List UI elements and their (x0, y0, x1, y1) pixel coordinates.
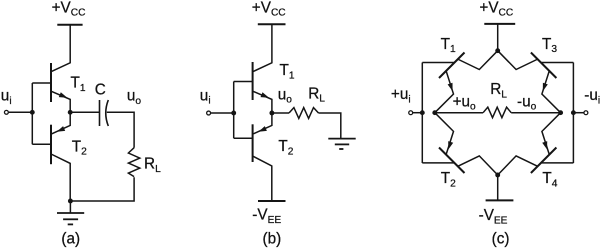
wire input (b) (211, 112, 234, 114)
transistor T2 (a) base bar (50, 125, 52, 165)
svg-text:RL: RL (144, 156, 161, 175)
svg-text:T1: T1 (280, 62, 295, 81)
terminal -u_i (c) (584, 111, 588, 115)
transistor T1 (b) base bar (252, 62, 254, 100)
svg-text:uo: uo (278, 86, 293, 105)
transistor T1 (b) emitter with arrow (253, 91, 272, 113)
wire emitter junction to RL (b) (272, 112, 289, 114)
terminal u_i (b) (207, 111, 211, 115)
transistor T2 (b) base bar (252, 124, 254, 162)
node input left (c) (420, 110, 425, 115)
svg-text:uo: uo (127, 88, 142, 107)
wire RL to ground rail (a) (70, 177, 134, 201)
node input junction (b) (231, 111, 236, 116)
svg-text:+uo: +uo (453, 93, 476, 112)
node ground junction (a) (68, 199, 73, 204)
transistor T2 (a) base lead (32, 143, 51, 145)
svg-text:-VEE: -VEE (252, 207, 281, 226)
svg-text:+VCC: +VCC (252, 0, 286, 19)
+Vcc supply rail (b) (258, 23, 286, 25)
wire right input rail (c) (572, 63, 574, 164)
resistor RL (a) (128, 148, 139, 177)
wire RL to ground (b) (319, 113, 341, 139)
transistor T1 (c) collector (458, 51, 498, 70)
+Vcc supply rail (a) (57, 24, 82, 26)
transistor T3 (c) base bar (531, 53, 557, 79)
svg-text:-uo: -uo (517, 93, 537, 112)
capacitor C (a) (99, 100, 101, 126)
node input junction (a) (30, 110, 35, 115)
wire emitter junction to capacitor (a) (70, 111, 99, 113)
wire input left (c) (413, 112, 423, 114)
terminal u_i (a) (4, 110, 8, 114)
-Vee supply rail (b) (258, 200, 286, 202)
wire input (a) (9, 111, 33, 113)
transistor T2 (c) base lead (422, 162, 454, 164)
transistor T2 (a) collector (51, 154, 70, 201)
transistor T2 (a) emitter with arrow (52, 112, 70, 134)
svg-text:T1: T1 (441, 36, 456, 55)
svg-text:+ui: +ui (391, 86, 411, 105)
transistor T2 (b) emitter with arrow (253, 113, 272, 134)
resistor RL (c) (483, 107, 511, 118)
transistor T4 (c) emitter with arrow (542, 113, 561, 155)
wire bottom node to Vee rail (c) (497, 175, 499, 200)
+Vcc supply rail (c) (484, 23, 515, 25)
svg-text:T4: T4 (542, 170, 557, 189)
svg-text:C: C (95, 82, 106, 99)
terminal +u_i (c) (409, 111, 413, 115)
transistor T3 (c) base lead (542, 62, 574, 64)
svg-text:-ui: -ui (584, 87, 600, 106)
svg-text:RL: RL (308, 85, 325, 104)
svg-text:+VCC: +VCC (52, 0, 86, 19)
transistor T3 (c) emitter with arrow (542, 71, 561, 113)
transistor T4 (c) base bar (531, 148, 557, 174)
transistor T1 (c) emitter with arrow (435, 71, 454, 113)
-Vee supply rail (c) (486, 199, 514, 201)
svg-text:T1: T1 (71, 75, 86, 94)
svg-text:-VEE: -VEE (479, 207, 508, 226)
svg-text:ui: ui (1, 88, 12, 107)
node top center (c) (495, 48, 500, 53)
ground (b) (328, 138, 355, 140)
node +u_o (c) (432, 110, 437, 115)
transistor T2 (c) base bar (439, 148, 465, 174)
node emitter junction (a) (68, 110, 73, 115)
node bottom center (c) (495, 173, 500, 178)
transistor T2 (b) collector (253, 156, 272, 201)
svg-text:(c): (c) (492, 230, 510, 247)
wire left input rail (c) (421, 63, 423, 164)
wire Vcc rail to top node (c) (497, 24, 499, 51)
wire +u_o node to RL (c) (435, 112, 483, 114)
ground (a) (69, 201, 71, 213)
svg-text:(b): (b) (263, 230, 282, 247)
transistor T1 (c) base lead (422, 62, 454, 64)
svg-text:T2: T2 (72, 138, 87, 157)
wire base line (a) (31, 83, 33, 144)
transistor T4 (c) base lead (542, 162, 574, 164)
svg-text:RL: RL (490, 81, 507, 100)
transistor T1 (a) emitter with arrow (51, 91, 70, 112)
svg-text:+VCC: +VCC (479, 0, 513, 19)
svg-text:T2: T2 (441, 170, 456, 189)
node emitter junction (b) (269, 111, 274, 116)
wire RL to -u_o node (c) (511, 112, 560, 114)
svg-text:ui: ui (200, 87, 211, 106)
transistor T3 (c) collector (498, 51, 538, 70)
wire Vcc rail to T1 collector (a) (51, 25, 70, 72)
transistor T4 (c) collector (498, 156, 538, 175)
node input right (c) (571, 110, 576, 115)
resistor RL (b) (289, 108, 319, 119)
node -u_o (c) (558, 110, 563, 115)
svg-text:(a): (a) (61, 230, 80, 247)
wire Vcc rail to T1 collector (b) (253, 24, 272, 71)
transistor T1 (a) base bar (50, 63, 52, 102)
transistor T2 (b) base lead (234, 137, 253, 139)
transistor T1 (b) base lead (234, 81, 253, 83)
wire capacitor to RL (a) (107, 112, 134, 147)
svg-text:T3: T3 (542, 36, 557, 55)
svg-text:T2: T2 (278, 138, 293, 157)
transistor T1 (c) base bar (439, 53, 465, 79)
transistor T1 (a) base lead (32, 82, 51, 84)
wire base line (b) (233, 82, 235, 139)
transistor T2 (c) emitter with arrow (435, 113, 454, 155)
wire input right (c) (573, 112, 583, 114)
transistor T2 (c) collector (458, 156, 498, 175)
